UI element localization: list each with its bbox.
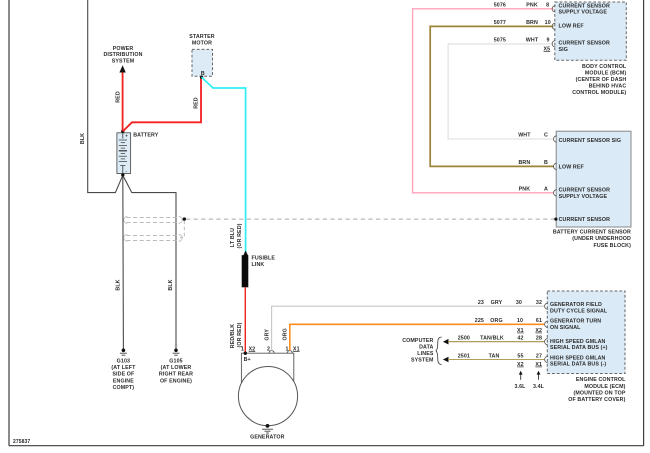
svg-text:1: 1 <box>285 347 288 353</box>
module battery current sensor box <box>556 131 631 227</box>
svg-text:(AT LOWER: (AT LOWER <box>161 365 192 371</box>
svg-text:BLK: BLK <box>116 279 122 290</box>
wire RED/BLK fusible link to generator B+ <box>230 287 245 352</box>
svg-text:GENERATOR TURN: GENERATOR TURN <box>550 318 601 324</box>
wire BLK left (battery negative to top of page) <box>80 0 123 193</box>
sensor internal labels <box>559 138 622 223</box>
wire TAN data bus - to ECM <box>443 353 544 368</box>
svg-text:TAN: TAN <box>489 353 500 359</box>
label ENGINE CONTROL MODULE (ECM) <box>568 377 626 403</box>
wire ORG generator pin 1 to ECM <box>283 318 545 351</box>
svg-text:STARTER: STARTER <box>189 34 215 40</box>
label BATTERY CURRENT SENSOR <box>553 229 631 248</box>
ECM internal labels <box>550 302 608 368</box>
svg-text:LT BLU: LT BLU <box>230 228 236 247</box>
svg-text:BLK: BLK <box>168 279 174 290</box>
inline connector (dashed pass-through) upper pair <box>124 216 182 223</box>
svg-text:LINES: LINES <box>417 351 434 357</box>
svg-text:RED: RED <box>194 97 200 109</box>
svg-text:A: A <box>544 186 548 192</box>
svg-text:61: 61 <box>536 318 542 324</box>
svg-text:OF BATTERY COVER): OF BATTERY COVER) <box>568 397 625 403</box>
svg-text:(AT LEFT: (AT LEFT <box>111 365 136 371</box>
svg-text:TAN/BLK: TAN/BLK <box>480 336 504 342</box>
svg-text:MOTOR: MOTOR <box>192 41 212 47</box>
svg-text:275837: 275837 <box>13 439 30 445</box>
svg-text:HIGH SPEED GMLAN: HIGH SPEED GMLAN <box>550 356 606 362</box>
svg-text:SERIAL DATA BUS (-): SERIAL DATA BUS (-) <box>550 362 606 368</box>
svg-text:BLK: BLK <box>80 133 86 144</box>
svg-text:OF ENGINE): OF ENGINE) <box>160 378 192 384</box>
sensor pin A <box>519 186 557 196</box>
svg-text:CURRENT SENSOR: CURRENT SENSOR <box>559 41 610 47</box>
svg-text:WHT: WHT <box>518 133 531 139</box>
arrow to power distribution system <box>119 65 125 72</box>
label BODY CONTROL MODULE (BCM) <box>572 64 627 96</box>
svg-text:9: 9 <box>546 38 549 44</box>
svg-text:ORG: ORG <box>283 328 289 340</box>
svg-text:RED/BLK: RED/BLK <box>230 324 236 348</box>
svg-text:BATTERY: BATTERY <box>133 133 159 139</box>
svg-text:CURRENT SENSOR: CURRENT SENSOR <box>559 3 610 9</box>
label COMPUTER DATA LINES SYSTEM <box>402 338 434 364</box>
ground G105 <box>159 349 193 385</box>
svg-text:BRN: BRN <box>518 160 530 166</box>
wire RED battery to power distribution arrow <box>115 72 122 131</box>
svg-text:LOW REF: LOW REF <box>559 23 585 29</box>
computer data lines brace <box>436 337 442 365</box>
svg-text:B+: B+ <box>244 357 251 363</box>
sheet number 275837 <box>13 439 30 445</box>
svg-text:(MOUNTED ON TOP: (MOUNTED ON TOP <box>573 390 625 396</box>
svg-text:COMPUTER: COMPUTER <box>402 338 433 344</box>
svg-text:2501: 2501 <box>458 353 470 359</box>
svg-text:(OR RED): (OR RED) <box>237 322 243 347</box>
svg-text:SIG: SIG <box>559 47 569 53</box>
svg-text:GRY: GRY <box>265 329 271 341</box>
svg-text:(OR RED): (OR RED) <box>237 223 243 248</box>
svg-text:DATA: DATA <box>419 345 433 351</box>
svg-text:CURRENT SENSOR: CURRENT SENSOR <box>559 217 610 223</box>
svg-text:ORG: ORG <box>490 318 502 324</box>
wire LT BLU starter motor to fusible link <box>202 77 246 252</box>
ground G103 <box>111 349 136 391</box>
svg-text:RIGHT REAR: RIGHT REAR <box>159 372 193 378</box>
svg-text:SERIAL DATA BUS (+): SERIAL DATA BUS (+) <box>550 345 608 351</box>
svg-text:SUPPLY VOLTAGE: SUPPLY VOLTAGE <box>559 194 608 200</box>
wire PNK 5076 BCM pin 8 to sensor pin A <box>413 2 556 193</box>
svg-text:3.6L: 3.6L <box>514 384 526 390</box>
inline connector (dashed pass-through) lower pair <box>124 234 182 241</box>
svg-text:C: C <box>544 133 548 139</box>
svg-text:BRN: BRN <box>526 20 538 26</box>
wire BLK right (battery negative to G105) <box>123 175 176 350</box>
sensor pin C <box>518 133 557 143</box>
svg-text:ENGINE CONTROL: ENGINE CONTROL <box>576 377 626 383</box>
svg-text:HIGH SPEED GMLAN: HIGH SPEED GMLAN <box>550 339 606 345</box>
svg-text:5075: 5075 <box>494 38 506 44</box>
svg-text:B: B <box>544 160 548 166</box>
svg-text:23: 23 <box>478 300 484 306</box>
page border right <box>643 0 645 446</box>
svg-text:1: 1 <box>241 347 244 353</box>
svg-text:LOW REF: LOW REF <box>559 165 585 171</box>
svg-text:FUSIBLE: FUSIBLE <box>252 255 276 261</box>
module ECM box <box>547 291 625 374</box>
svg-text:30: 30 <box>516 300 522 306</box>
svg-text:CONTROL MODULE): CONTROL MODULE) <box>572 90 626 96</box>
svg-text:POWER: POWER <box>113 46 134 52</box>
svg-text:5076: 5076 <box>494 2 506 8</box>
svg-text:225: 225 <box>475 318 484 324</box>
svg-text:PNK: PNK <box>526 2 538 8</box>
svg-text:2: 2 <box>267 347 270 353</box>
svg-text:FUSE BLOCK): FUSE BLOCK) <box>593 243 631 249</box>
svg-text:WHT: WHT <box>526 38 539 44</box>
svg-text:CURRENT SENSOR: CURRENT SENSOR <box>559 188 610 194</box>
engine variant arrows 3.6L / 3.4L <box>514 371 544 390</box>
svg-text:DUTY CYCLE SIGNAL: DUTY CYCLE SIGNAL <box>550 309 608 315</box>
wire WHT 5075 BCM pin 9 to sensor pin C <box>448 38 555 139</box>
svg-text:BEHIND HVAC: BEHIND HVAC <box>589 83 627 89</box>
wire TAN/BLK data bus + to ECM <box>443 336 544 345</box>
svg-text:3.4L: 3.4L <box>533 384 545 390</box>
svg-text:DISTRIBUTION: DISTRIBUTION <box>103 52 142 58</box>
svg-text:5077: 5077 <box>494 20 506 26</box>
svg-text:10: 10 <box>545 20 551 26</box>
svg-text:CURRENT SENSOR SIG: CURRENT SENSOR SIG <box>559 138 622 144</box>
label POWER DISTRIBUTION SYSTEM <box>103 46 142 65</box>
svg-text:SYSTEM: SYSTEM <box>112 59 135 65</box>
svg-text:ENGINE: ENGINE <box>113 378 134 384</box>
svg-text:27: 27 <box>536 353 542 359</box>
wire BLK center (battery negative to G103) <box>116 175 124 350</box>
svg-text:42: 42 <box>517 336 523 342</box>
svg-text:G103: G103 <box>117 359 130 365</box>
generator G1 <box>238 347 299 426</box>
wire BRN 5077 BCM pin 10 to sensor pin B <box>430 20 555 166</box>
battery B1 <box>117 130 159 177</box>
ECM pin connectors <box>545 303 548 363</box>
wire GRY generator pin 2 to ECM <box>265 300 545 351</box>
svg-text:RED: RED <box>115 91 121 103</box>
starter motor M1 <box>189 34 215 79</box>
svg-text:G105: G105 <box>169 359 182 365</box>
svg-text:32: 32 <box>536 300 542 306</box>
svg-text:GENERATOR: GENERATOR <box>250 435 284 441</box>
svg-text:55: 55 <box>517 353 523 359</box>
svg-text:SIDE OF: SIDE OF <box>112 372 135 378</box>
svg-text:GENERATOR FIELD: GENERATOR FIELD <box>550 302 602 308</box>
svg-text:GRY: GRY <box>491 300 503 306</box>
fusible link FL <box>242 251 276 288</box>
BCM internal labels <box>559 3 610 53</box>
module BCM box <box>555 2 627 60</box>
svg-text:MODULE (BCM): MODULE (BCM) <box>585 70 627 76</box>
svg-text:PNK: PNK <box>519 186 531 192</box>
page border bottom <box>9 445 644 447</box>
sensor pin B <box>518 160 556 170</box>
svg-text:10: 10 <box>517 318 523 324</box>
svg-text:SUPPLY VOLTAGE: SUPPLY VOLTAGE <box>559 10 608 16</box>
ground at generator <box>250 424 284 441</box>
sensor current sensor pin dot <box>554 218 557 221</box>
svg-text:ON SIGNAL: ON SIGNAL <box>550 325 581 331</box>
svg-text:LINK: LINK <box>252 262 265 268</box>
svg-text:(CENTER OF DASH: (CENTER OF DASH <box>576 77 627 83</box>
dashed drop from splice dot to lower connector pair <box>180 221 184 238</box>
node splice dot on dashed current-sensor wire <box>183 217 186 220</box>
svg-text:SYSTEM: SYSTEM <box>411 358 434 364</box>
svg-text:BODY CONTROL: BODY CONTROL <box>582 64 627 70</box>
svg-text:28: 28 <box>536 336 542 342</box>
svg-text:2500: 2500 <box>458 336 470 342</box>
page border left <box>8 0 10 446</box>
svg-text:MODULE (ECM): MODULE (ECM) <box>584 384 625 390</box>
svg-text:BATTERY CURRENT SENSOR: BATTERY CURRENT SENSOR <box>553 229 631 235</box>
svg-text:(UNDER UNDERHOOD: (UNDER UNDERHOOD <box>572 236 631 242</box>
wire dashed CURRENT SENSOR (to battery current sensor) <box>186 218 556 220</box>
svg-text:8: 8 <box>546 2 549 8</box>
wire RED battery to starter motor <box>123 78 201 131</box>
svg-text:COMPT): COMPT) <box>113 385 135 391</box>
